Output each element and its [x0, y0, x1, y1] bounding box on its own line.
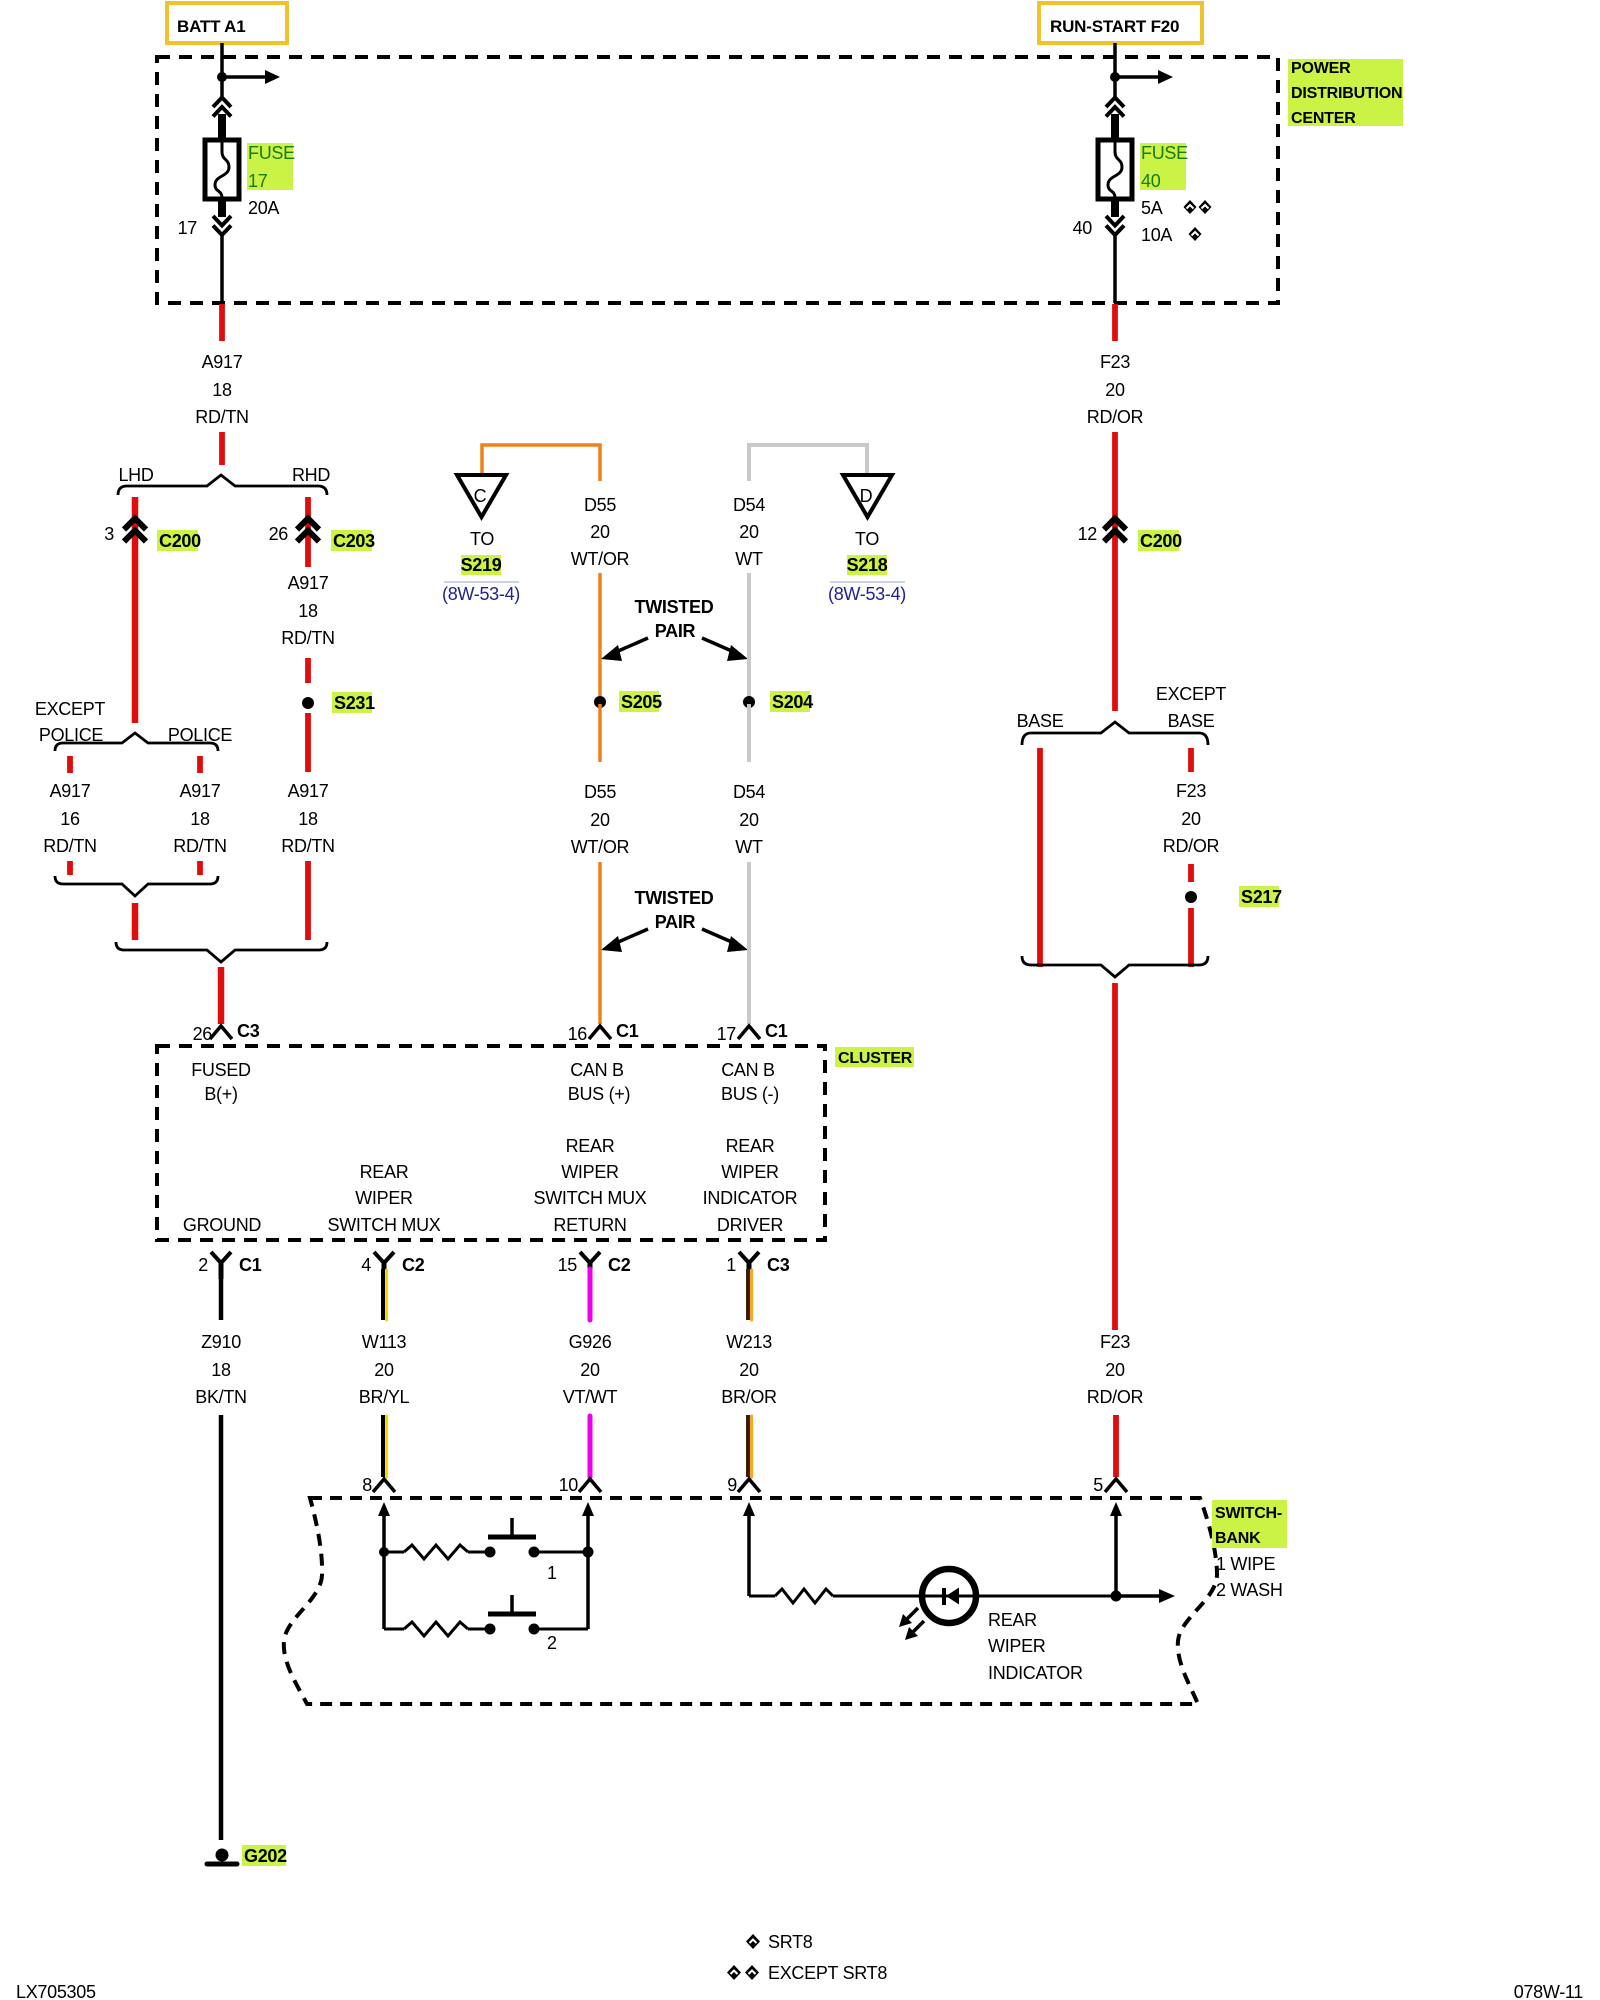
wire from fuse 40 to PDC edge: [1113, 235, 1117, 303]
splice node S231: [302, 692, 375, 713]
svg-text:BR/YL: BR/YL: [359, 1387, 410, 1407]
LHD/RHD merge brace: [116, 942, 327, 962]
CLUSTER label: [835, 1047, 914, 1067]
BASE variants merge brace: [1022, 956, 1208, 977]
svg-text:A917: A917: [202, 352, 243, 372]
svg-text:A917: A917: [50, 781, 91, 801]
svg-text:18: 18: [190, 809, 210, 829]
wire from BATT A1 into PDC: [220, 43, 224, 97]
pin 17 label: [178, 218, 198, 238]
svg-text:10A: 10A: [1141, 225, 1172, 245]
wire G926 violet upper segment: [588, 1269, 593, 1320]
connector pin 5 caret at switch-bank: [1093, 1475, 1127, 1495]
off-page triangle C to S219: [457, 475, 506, 517]
switch position label 1: [547, 1563, 557, 1583]
svg-text:20: 20: [374, 1360, 394, 1380]
wire from fuse 17 to PDC edge: [220, 235, 224, 303]
svg-text:DISTRIBUTION: DISTRIBUTION: [1291, 85, 1402, 102]
svg-text:20: 20: [739, 810, 759, 830]
svg-text:D55: D55: [584, 782, 616, 802]
twisted pair callout lower: [601, 888, 748, 952]
wire A917 red stub below label (except police): [67, 861, 73, 875]
fuse 40 top lead: [1111, 114, 1119, 141]
in-line connector chevrons above fuse 17: [213, 98, 231, 117]
svg-text:SWITCH-: SWITCH-: [1215, 1505, 1282, 1522]
wire A917 red to cluster connector: [218, 967, 225, 1024]
svg-text:WT: WT: [735, 549, 763, 569]
connector pin 8 caret at switch-bank: [362, 1475, 395, 1495]
legend diamonds EXCEPT SRT8: [727, 1963, 887, 1983]
svg-text:C3: C3: [237, 1021, 260, 1041]
pushbutton switch 2 (wash): [488, 1595, 536, 1614]
wire F23 red base branch: [1037, 748, 1043, 967]
svg-text:26: 26: [269, 524, 289, 544]
pushbutton switch 1 (wipe): [488, 1518, 536, 1537]
svg-text:FUSE: FUSE: [1141, 143, 1188, 163]
svg-text:SRT8: SRT8: [768, 1932, 813, 1952]
svg-text:S204: S204: [772, 692, 813, 712]
wire Z910 black upper segment: [219, 1278, 224, 1320]
svg-text:G926: G926: [569, 1332, 612, 1352]
fuse 17 value labels FUSE 17 20A: [247, 143, 295, 218]
connector C200 pin 3 chevrons: [104, 519, 201, 552]
cluster pin function CAN B BUS (-): [721, 1060, 779, 1104]
svg-text:S218: S218: [847, 555, 888, 575]
junction dot indicator output: [1111, 1591, 1122, 1602]
junction dot at fuse 40 feed: [1110, 72, 1120, 82]
wire label F23 20 RD/OR (except base): [1163, 781, 1220, 856]
resistor indicator: [775, 1589, 833, 1603]
svg-text:18: 18: [211, 1360, 231, 1380]
svg-text:17: 17: [717, 1024, 737, 1044]
LHD / RHD split brace: [118, 465, 330, 495]
svg-text:B(+): B(+): [204, 1084, 237, 1104]
svg-text:C1: C1: [765, 1021, 788, 1041]
wire resistor to wipe switch: [468, 1551, 490, 1554]
pin 40 label: [1073, 218, 1093, 238]
connector mate arrow pin 9: [743, 1502, 755, 1596]
fuse 17 bottom lead: [218, 198, 226, 217]
connector C1 pin 2 fork below cluster: [198, 1252, 261, 1279]
svg-text:PAIR: PAIR: [655, 621, 696, 641]
wire arrow tap to other circuits (right): [1115, 70, 1173, 84]
svg-text:G202: G202: [244, 1846, 287, 1866]
svg-text:WIPER: WIPER: [355, 1188, 413, 1208]
svg-text:BASE: BASE: [1017, 711, 1064, 731]
connector C3 pin 1 fork below cluster: [726, 1252, 789, 1275]
connector pin 10 caret at switch-bank: [559, 1475, 601, 1495]
svg-text:A917: A917: [288, 573, 329, 593]
svg-text:20: 20: [590, 810, 610, 830]
fuse F40 body: [1098, 140, 1132, 199]
wire label A917 16 RD/TN: [43, 781, 97, 856]
svg-text:S231: S231: [334, 693, 375, 713]
svg-text:Z910: Z910: [201, 1332, 241, 1352]
svg-text:17: 17: [248, 171, 268, 191]
twisted pair callout upper: [601, 597, 748, 661]
wire label A917 18 RD/TN (RHD): [281, 573, 335, 648]
svg-text:C2: C2: [402, 1255, 425, 1275]
wire F23 red to S217: [1188, 864, 1194, 882]
in-line connector chevrons below fuse 40: [1106, 216, 1124, 235]
svg-text:C200: C200: [1140, 531, 1182, 551]
off-page triangle D to S218: [843, 475, 892, 517]
connector C2 pin 15 fork below cluster: [558, 1252, 631, 1275]
svg-text:RD/TN: RD/TN: [195, 407, 249, 427]
TO S219 (8W-53-4) reference: [442, 529, 520, 604]
wire label W213 20 BR/OR: [721, 1332, 777, 1407]
svg-text:(8W-53-4): (8W-53-4): [828, 584, 906, 604]
connector mate arrow pin 8: [378, 1502, 390, 1552]
switch ladder right rail: [586, 1552, 590, 1629]
svg-text:20: 20: [1105, 1360, 1125, 1380]
wire label A917 18 RD/TN: [195, 352, 249, 427]
svg-text:WT/OR: WT/OR: [571, 549, 630, 569]
svg-text:16: 16: [568, 1024, 588, 1044]
svg-text:2 WASH: 2 WASH: [1216, 1580, 1283, 1600]
LED rear wiper indicator: [922, 1569, 976, 1623]
connector C3 pin 26 caret at cluster: [193, 1021, 260, 1044]
svg-text:FUSE: FUSE: [248, 143, 295, 163]
wire A917 red RHD below S231: [305, 713, 311, 772]
svg-text:WT: WT: [735, 837, 763, 857]
svg-text:SWITCH MUX: SWITCH MUX: [534, 1188, 647, 1208]
wire D55 orange below S205: [598, 704, 602, 762]
splice node S205: [594, 691, 662, 712]
wire arrow tap to other circuits (left): [222, 70, 280, 84]
svg-text:CAN B: CAN B: [570, 1060, 624, 1080]
SWITCH-BANK label: [1212, 1500, 1287, 1548]
svg-text:TWISTED: TWISTED: [635, 888, 714, 908]
svg-text:LHD: LHD: [118, 465, 153, 485]
svg-text:S217: S217: [1241, 887, 1282, 907]
svg-text:FUSED: FUSED: [191, 1060, 251, 1080]
wire F23 red below S217: [1188, 908, 1194, 967]
fuse 40 value labels FUSE 40 5A 10A: [1140, 143, 1188, 245]
wire W213 brown/orange lower segment: [748, 1415, 752, 1477]
svg-text:C200: C200: [159, 531, 201, 551]
wire label Z910 18 BK/TN: [195, 1332, 247, 1407]
svg-text:INDICATOR: INDICATOR: [703, 1188, 798, 1208]
svg-text:RD/TN: RD/TN: [281, 628, 335, 648]
svg-text:20: 20: [590, 522, 610, 542]
svg-text:20: 20: [1181, 809, 1201, 829]
svg-text:CENTER: CENTER: [1291, 110, 1356, 127]
node RUN-START F20 feed box: [1039, 3, 1202, 43]
svg-text:GROUND: GROUND: [183, 1215, 261, 1235]
svg-text:WIPER: WIPER: [721, 1162, 779, 1182]
wire label D54 20 WT lower: [733, 782, 765, 857]
svg-text:C1: C1: [239, 1255, 262, 1275]
cluster pin function CAN B BUS (+): [568, 1060, 630, 1104]
svg-text:BUS (+): BUS (+): [568, 1084, 630, 1104]
svg-text:5: 5: [1093, 1475, 1103, 1495]
TO S218 (8W-53-4) reference: [828, 529, 906, 604]
svg-text:S205: S205: [621, 692, 662, 712]
node BATT A1 feed box: [167, 3, 287, 43]
wire wipe branch: [384, 1551, 404, 1554]
svg-text:10: 10: [559, 1475, 579, 1495]
wire A917 red RHD to S231: [305, 658, 311, 683]
LED emission arrows: [899, 1608, 924, 1640]
power distribution center dashed box: [157, 57, 1278, 303]
svg-text:RD/OR: RD/OR: [1163, 836, 1220, 856]
wire resistor to LED: [833, 1595, 1157, 1598]
POWER DISTRIBUTION CENTER label: [1288, 59, 1403, 127]
connector mate arrow pin 5: [1110, 1502, 1122, 1596]
svg-text:15: 15: [558, 1255, 578, 1275]
connector C1 pin 16 caret: [568, 1021, 639, 1044]
svg-text:RETURN: RETURN: [553, 1215, 626, 1235]
svg-text:D: D: [860, 486, 873, 506]
svg-text:WIPER: WIPER: [988, 1636, 1046, 1656]
svg-text:F23: F23: [1100, 352, 1130, 372]
svg-text:RUN-START F20: RUN-START F20: [1050, 17, 1179, 36]
wire A917 red except-police stub: [67, 756, 73, 773]
splice node S217: [1185, 886, 1282, 907]
svg-text:8: 8: [362, 1475, 372, 1495]
wire from RUN-START F20 into PDC: [1113, 43, 1117, 97]
svg-text:RD/TN: RD/TN: [281, 836, 335, 856]
svg-text:BR/OR: BR/OR: [721, 1387, 777, 1407]
wire label D54 20 WT: [733, 495, 765, 569]
junction dot wipe branch right: [583, 1547, 594, 1558]
svg-text:POWER: POWER: [1291, 60, 1351, 77]
svg-text:2: 2: [198, 1255, 208, 1275]
svg-text:F23: F23: [1176, 781, 1206, 801]
svg-text:C: C: [474, 486, 487, 506]
switch-bank pin function 2 WASH: [1216, 1580, 1283, 1600]
fuse 17 top lead: [218, 114, 226, 141]
svg-text:1: 1: [547, 1563, 557, 1583]
svg-text:DRIVER: DRIVER: [717, 1215, 784, 1235]
resistor wipe: [404, 1545, 468, 1559]
svg-text:18: 18: [212, 380, 232, 400]
wire W113 brown/yellow upper segment: [383, 1269, 387, 1320]
svg-text:EXCEPT: EXCEPT: [1156, 684, 1227, 704]
svg-text:F23: F23: [1100, 1332, 1130, 1352]
svg-text:20: 20: [580, 1360, 600, 1380]
svg-text:EXCEPT SRT8: EXCEPT SRT8: [768, 1963, 887, 1983]
svg-text:BUS (-): BUS (-): [721, 1084, 779, 1104]
wire D54 gray to S204: [747, 573, 751, 700]
svg-text:CLUSTER: CLUSTER: [838, 1050, 913, 1067]
svg-text:C2: C2: [608, 1255, 631, 1275]
svg-text:RHD: RHD: [292, 465, 330, 485]
svg-text:18: 18: [298, 601, 318, 621]
svg-text:20A: 20A: [248, 198, 279, 218]
svg-text:20: 20: [1105, 380, 1125, 400]
svg-text:C1: C1: [616, 1021, 639, 1041]
wire wash branch: [384, 1628, 404, 1631]
svg-text:RD/OR: RD/OR: [1087, 407, 1144, 427]
svg-text:1 WIPE: 1 WIPE: [1216, 1554, 1276, 1574]
svg-text:C203: C203: [333, 531, 375, 551]
wire A917 red LHD branch: [132, 497, 139, 723]
cluster pin function REAR WIPER SWITCH MUX: [328, 1162, 441, 1235]
svg-text:PAIR: PAIR: [655, 912, 696, 932]
splice node S204: [743, 691, 813, 712]
police variants merge brace: [55, 876, 218, 896]
svg-text:(8W-53-4): (8W-53-4): [442, 584, 520, 604]
wire A917 red stub below label (police): [197, 861, 203, 875]
REAR WIPER INDICATOR label: [988, 1610, 1083, 1683]
wire W213 brown/orange upper segment: [748, 1269, 752, 1320]
switch ladder left rail: [382, 1552, 386, 1629]
wire wipe switch to right rail: [534, 1551, 588, 1554]
wire resistor to wash switch: [468, 1628, 490, 1631]
svg-text:D55: D55: [584, 495, 616, 515]
svg-text:20: 20: [739, 522, 759, 542]
svg-text:BASE: BASE: [1168, 711, 1215, 731]
wire D54 gray top run to triangle D: [749, 445, 867, 481]
wire label A917 18 RD/TN (RHD lower): [281, 781, 335, 856]
svg-text:TWISTED: TWISTED: [635, 597, 714, 617]
ground G202 symbol: [207, 1845, 287, 1866]
EXCEPT POLICE / POLICE split brace: [35, 699, 233, 751]
switch position label 2: [547, 1633, 557, 1653]
fuse 40 bottom lead: [1111, 198, 1119, 217]
wire D55 orange to S205: [598, 573, 602, 700]
wire A917 red RHD long to merge: [305, 861, 311, 940]
in-line connector chevrons below fuse 17: [213, 216, 231, 235]
svg-text:D54: D54: [733, 782, 765, 802]
svg-text:9: 9: [727, 1475, 737, 1495]
wire A917 red merged LHD stub: [132, 903, 139, 940]
connector C203 pin 26 chevrons: [269, 519, 376, 552]
legend diamond SRT8: [746, 1932, 813, 1952]
fuse F17 body: [205, 140, 239, 199]
svg-text:3: 3: [104, 524, 114, 544]
svg-text:D54: D54: [733, 495, 765, 515]
svg-text:SWITCH MUX: SWITCH MUX: [328, 1215, 441, 1235]
svg-text:TO: TO: [855, 529, 879, 549]
svg-text:18: 18: [298, 809, 318, 829]
svg-text:W113: W113: [362, 1332, 407, 1352]
svg-text:REAR: REAR: [566, 1136, 615, 1156]
SWITCH-BANK dashed box with torn edges: [284, 1498, 1217, 1704]
svg-text:LX705305: LX705305: [16, 1982, 96, 2000]
output arrow to wipe/wash contacts: [1116, 1589, 1175, 1603]
svg-text:VT/WT: VT/WT: [563, 1387, 618, 1407]
wire F23 red long run to switch-bank: [1112, 983, 1118, 1330]
svg-text:BK/TN: BK/TN: [195, 1387, 247, 1407]
svg-text:BATT A1: BATT A1: [177, 17, 245, 36]
svg-text:A917: A917: [180, 781, 221, 801]
footnote diamonds for 5A (except SRT8): [1184, 200, 1212, 214]
svg-text:17: 17: [178, 218, 198, 238]
wire A917 red RHD branch upper: [305, 497, 311, 567]
svg-text:40: 40: [1141, 171, 1161, 191]
svg-text:1: 1: [726, 1255, 736, 1275]
wire label A917 18 RD/TN (police): [173, 781, 227, 856]
cluster pin function FUSED B(+): [191, 1060, 251, 1104]
wire W113 brown/yellow lower segment: [383, 1415, 387, 1477]
svg-text:20: 20: [739, 1360, 759, 1380]
svg-text:REAR: REAR: [360, 1162, 409, 1182]
connector C1 pin 17 caret: [717, 1021, 788, 1044]
wire indicator branch: [749, 1595, 775, 1598]
svg-text:REAR: REAR: [726, 1136, 775, 1156]
connector pin 9 caret at switch-bank: [727, 1475, 760, 1495]
wire A917 red below PDC: [219, 304, 225, 341]
switch contact dots wipe: [485, 1547, 540, 1558]
wire D54 gray below S204: [747, 704, 751, 762]
connector C2 pin 4 fork below cluster: [361, 1252, 424, 1275]
svg-text:RD/TN: RD/TN: [173, 836, 227, 856]
svg-text:4: 4: [361, 1255, 371, 1275]
wire label D55 20 WT/OR: [571, 495, 630, 569]
svg-text:BANK: BANK: [1215, 1530, 1261, 1547]
resistor wash: [404, 1622, 468, 1636]
wire A917 red police stub: [197, 756, 203, 773]
wire Z910 black long run to ground: [219, 1415, 224, 1840]
svg-text:078W-11: 078W-11: [1514, 1982, 1584, 2000]
junction dot at fuse 17 feed: [217, 72, 227, 82]
wire D55 orange to cluster: [598, 862, 602, 1024]
in-line connector chevrons above fuse 40: [1106, 98, 1124, 117]
svg-text:CAN B: CAN B: [721, 1060, 775, 1080]
cluster pin function REAR WIPER SWITCH MUX RETURN: [534, 1136, 647, 1235]
wire wash switch to right rail: [534, 1628, 588, 1631]
wire F23 red except-base stub: [1188, 748, 1194, 772]
cluster pin function GROUND: [183, 1215, 261, 1235]
wire A917 red to LHD/RHD split: [219, 432, 225, 465]
svg-text:12: 12: [1078, 524, 1098, 544]
BASE / EXCEPT BASE split brace: [1017, 684, 1227, 745]
svg-text:RD/OR: RD/OR: [1087, 1387, 1144, 1407]
wire label G926 20 VT/WT: [563, 1332, 618, 1407]
svg-text:5A: 5A: [1141, 198, 1163, 218]
svg-text:16: 16: [60, 809, 80, 829]
svg-text:WT/OR: WT/OR: [571, 837, 630, 857]
switch-bank pin function 1 WIPE: [1216, 1554, 1276, 1574]
wire D55 orange top run to triangle C: [482, 445, 600, 481]
wire label F23 20 RD/OR: [1087, 352, 1144, 427]
svg-text:S219: S219: [461, 555, 502, 575]
svg-text:REAR: REAR: [988, 1610, 1037, 1630]
svg-text:C3: C3: [767, 1255, 790, 1275]
wire label W113 20 BR/YL: [359, 1332, 410, 1407]
svg-text:WIPER: WIPER: [561, 1162, 619, 1182]
connector C200 pin 12 chevrons: [1078, 519, 1183, 552]
cluster pin function REAR WIPER INDICATOR DRIVER: [703, 1136, 798, 1235]
sheet number 078W-11: [1514, 1982, 1584, 2000]
switch contact dots wash: [485, 1624, 540, 1635]
sheet number LX705305: [16, 1982, 96, 2000]
svg-text:TO: TO: [470, 529, 494, 549]
svg-text:EXCEPT: EXCEPT: [35, 699, 106, 719]
footnote diamond for 10A (SRT8): [1189, 227, 1202, 241]
svg-text:A917: A917: [288, 781, 329, 801]
connector mate arrow pin 10: [582, 1502, 594, 1552]
svg-text:26: 26: [193, 1024, 213, 1044]
wire F23 red long run to split: [1112, 432, 1118, 711]
wire label F23 20 RD/OR lower: [1087, 1332, 1144, 1407]
svg-text:RD/TN: RD/TN: [43, 836, 97, 856]
wire F23 red below PDC: [1112, 304, 1118, 341]
wire D54 gray to cluster: [747, 862, 751, 1024]
svg-text:W213: W213: [726, 1332, 772, 1352]
svg-text:INDICATOR: INDICATOR: [988, 1663, 1083, 1683]
svg-text:40: 40: [1073, 218, 1093, 238]
wire G926 violet lower segment: [588, 1416, 593, 1477]
wire label D55 20 WT/OR lower: [571, 782, 630, 857]
svg-text:2: 2: [547, 1633, 557, 1653]
wire F23 red into switch-bank: [1113, 1415, 1119, 1477]
CLUSTER dashed box: [157, 1046, 825, 1240]
junction dot wipe branch left: [379, 1547, 389, 1557]
